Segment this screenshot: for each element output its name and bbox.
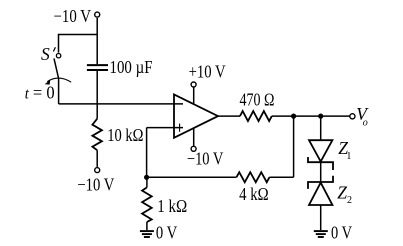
resistor 4 kOhm [237, 172, 270, 182]
svg-text:1 kΩ: 1 kΩ [157, 196, 187, 216]
wire plus input riser [146, 128, 148, 178]
terminal +10V [191, 82, 196, 87]
resistor 470 Ohm [240, 111, 272, 121]
wire zener node to output terminal [321, 115, 350, 117]
wire node to 1k resistor [146, 177, 148, 187]
wire 1k to ground [146, 222, 148, 230]
wire resistor to bottom-left terminal [96, 150, 98, 167]
wire op-amp output [218, 115, 240, 117]
node feedback junction [291, 114, 296, 119]
wire 4k right lead [270, 176, 294, 178]
terminal -10V op-amp [191, 146, 196, 151]
svg-text:Z: Z [337, 183, 347, 203]
svg-text:100 µF: 100 µF [110, 57, 153, 77]
svg-text:470 Ω: 470 Ω [240, 90, 275, 110]
op-amp plus input wire [147, 127, 183, 129]
wire 470 to feedback node [272, 115, 294, 117]
terminal -10V bottom-left [95, 168, 100, 173]
wire positive supply [193, 87, 195, 104]
svg-text:o: o [363, 117, 368, 128]
svg-text:t = 0: t = 0 [25, 83, 55, 103]
wire Z1 to Z2 [320, 162, 322, 182]
label Z1 [338, 138, 351, 162]
terminal -10V top [95, 12, 100, 17]
wire zener node to Z1 [320, 116, 322, 140]
svg-text:2: 2 [347, 195, 352, 206]
switch arc t=0 arrow [45, 78, 71, 85]
resistor 10 kOhm [92, 119, 102, 151]
wire feedback node to zener node [294, 115, 321, 117]
svg-text:−10 V: −10 V [77, 175, 114, 195]
svg-text:−10 V: −10 V [187, 148, 224, 168]
svg-text:+10 V: +10 V [189, 62, 226, 82]
svg-text:S: S [41, 44, 50, 64]
wire main horizontal to op-amp inverting input [59, 103, 183, 105]
zener Z2 [308, 176, 333, 205]
terminal Vo [350, 114, 355, 119]
label Vo [356, 104, 369, 129]
svg-text:−10 V: −10 V [54, 6, 92, 26]
wire capacitor to resistor 10k [96, 71, 98, 119]
wire negative supply [193, 128, 195, 146]
op-amp plus sign [179, 124, 181, 132]
wire Z2 to ground [320, 205, 322, 230]
node plus input junction [144, 175, 149, 180]
label Z2 [337, 183, 352, 206]
svg-text:4 kΩ: 4 kΩ [239, 184, 269, 204]
svg-text:0 V: 0 V [156, 223, 178, 243]
svg-text:1: 1 [346, 151, 351, 162]
zener Z1 [308, 140, 333, 170]
capacitor C1 100uF [87, 65, 108, 70]
ground left [140, 231, 154, 237]
label S' [41, 44, 55, 64]
ground right [314, 231, 328, 237]
node zener junction [318, 114, 323, 119]
wire top terminal down to capacitor [96, 18, 98, 64]
resistor 1 kOhm [142, 187, 152, 222]
wire blade bottom to main wire [58, 78, 60, 104]
wire feedback riser right [293, 116, 295, 177]
switch S' contact [56, 54, 60, 58]
svg-text:10 kΩ: 10 kΩ [107, 125, 143, 145]
wire 4k left lead to plus node [147, 176, 237, 178]
op-amp U1 [174, 94, 218, 137]
switch blade [54, 58, 59, 78]
svg-text:0 V: 0 V [331, 223, 352, 243]
wire branch to switch [59, 35, 98, 53]
